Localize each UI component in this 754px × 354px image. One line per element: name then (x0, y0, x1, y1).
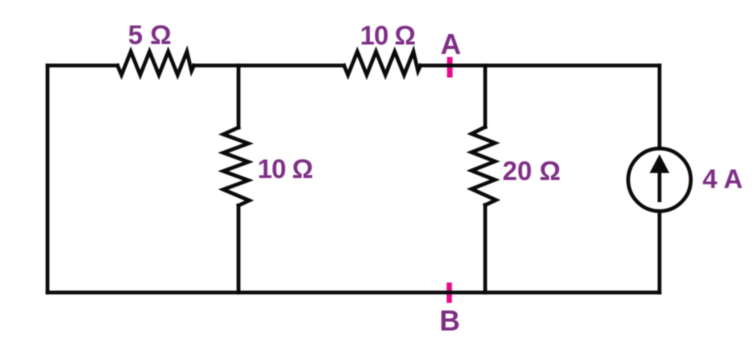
svg-text:A: A (441, 29, 462, 61)
svg-text:B: B (440, 306, 461, 338)
svg-text:20 Ω: 20 Ω (503, 156, 561, 186)
svg-text:10 Ω: 10 Ω (360, 20, 415, 50)
svg-text:10 Ω: 10 Ω (258, 154, 313, 184)
svg-text:5 Ω: 5 Ω (128, 20, 171, 50)
svg-text:4 A: 4 A (703, 164, 743, 194)
